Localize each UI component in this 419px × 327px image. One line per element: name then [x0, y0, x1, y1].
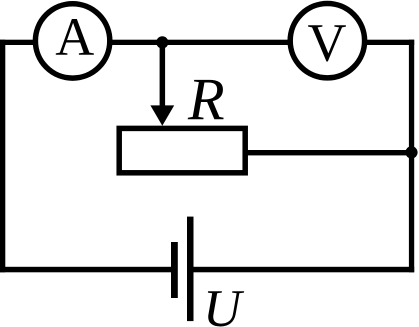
- wire bottom-left to battery: [0, 267, 174, 273]
- wire top-left to ammeter: [0, 40, 36, 45]
- wiper arrowhead: [150, 105, 174, 125]
- svg-text:U: U: [203, 280, 245, 327]
- svg-text:A: A: [55, 7, 94, 67]
- svg-text:R: R: [187, 67, 225, 133]
- svg-text:V: V: [308, 13, 347, 73]
- wire battery to bottom-right: [190, 267, 414, 273]
- wire resistor to right vertical: [245, 150, 414, 155]
- wire left vertical: [0, 40, 5, 273]
- wire right vertical: [409, 40, 414, 273]
- ammeter A1 circle: [35, 4, 109, 78]
- resistor R body: [119, 128, 245, 172]
- wire ammeter to voltmeter (top): [109, 40, 290, 45]
- battery U short plate (negative): [171, 242, 178, 298]
- wire voltmeter to top-right corner: [364, 40, 414, 45]
- voltmeter V1 circle: [290, 4, 364, 78]
- battery U long plate (positive): [187, 217, 194, 322]
- node junction right: [405, 146, 417, 158]
- node junction top: [156, 36, 168, 48]
- wire arrow stem (wiper): [160, 42, 166, 106]
